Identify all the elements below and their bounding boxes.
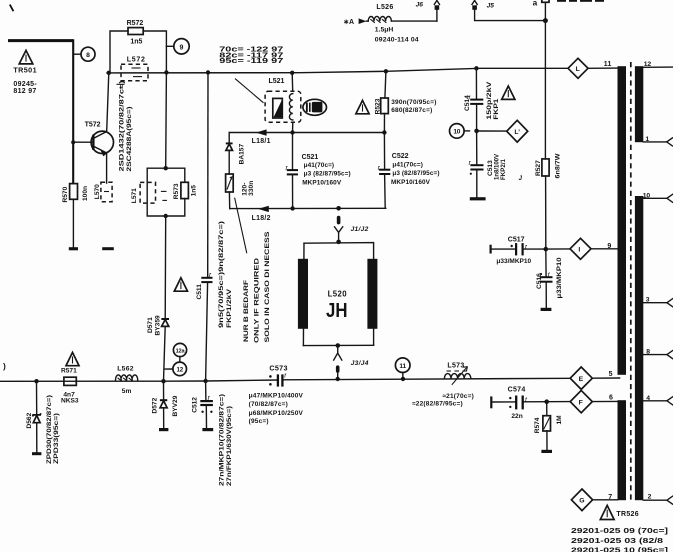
wire bus A down through C511 [207, 73, 209, 278]
svg-text:5: 5 [609, 371, 613, 378]
capacitor C516 [540, 249, 553, 308]
ground bar (R570) [69, 247, 78, 250]
svg-text:100n: 100n [82, 186, 89, 201]
net diamond E [570, 367, 592, 389]
pin 5 wire [592, 377, 619, 379]
node circle 10 [450, 124, 470, 139]
svg-text:C521: C521 [302, 154, 319, 161]
diode BA157 [226, 133, 233, 175]
wire loop to D571 [164, 216, 167, 319]
svg-text:9n5(70/95c=)9n(82/87c=): 9n5(70/95c=)9n(82/87c=) [218, 221, 225, 328]
svg-text:L526: L526 [376, 4, 393, 11]
resistor R523 [385, 71, 386, 98]
capacitor C573 [269, 373, 287, 387]
svg-text:FKP2/1: FKP2/1 [500, 159, 507, 180]
part numbers TR526 [571, 528, 668, 552]
main bus A (horizontal) [107, 68, 568, 73]
svg-text:29201-025 10 (95c=]: 29201-025 10 (95c=] [571, 547, 668, 552]
svg-text:MKP10/160V: MKP10/160V [302, 179, 342, 186]
svg-text:8: 8 [646, 349, 650, 356]
svg-text:2SC4288A(95c=): 2SC4288A(95c=) [126, 107, 133, 172]
inductor L521 (dashed box, core, coil) [265, 91, 301, 122]
transistor T572 [71, 73, 113, 183]
transformer core dashed line [630, 62, 632, 500]
svg-text:E: E [579, 376, 584, 383]
svg-text:C514: C514 [464, 95, 471, 111]
svg-text:8: 8 [86, 52, 90, 59]
connector J1/J2 [335, 206, 343, 242]
svg-text:C522: C522 [392, 153, 409, 160]
pin 2 wire [643, 496, 672, 504]
svg-text:I: I [578, 247, 580, 254]
svg-text:R572: R572 [127, 20, 144, 27]
node circle 9 [166, 39, 189, 54]
svg-text:27n/FKP1/630V(95c=): 27n/FKP1/630V(95c=) [226, 406, 233, 486]
svg-text:3: 3 [646, 297, 650, 304]
svg-text:150p/2kV: 150p/2kV [486, 81, 493, 120]
svg-text:NKS3: NKS3 [61, 398, 79, 405]
capacitor C511 [201, 272, 212, 381]
pointer line to L521 [235, 79, 264, 103]
zener diode D562 [33, 381, 41, 452]
svg-text:12a: 12a [176, 349, 186, 355]
svg-text:ZPD30(70/82/87c=): ZPD30(70/82/87c=) [46, 395, 53, 464]
svg-text:6: 6 [609, 395, 613, 402]
svg-text:10: 10 [643, 192, 651, 199]
resistor R574 (VDR) [543, 402, 551, 450]
svg-text:C511: C511 [196, 284, 203, 300]
svg-text:F: F [579, 399, 583, 406]
resistor 120-330n (adjustable) [226, 174, 234, 209]
resistor R573 [181, 182, 189, 198]
capacitor C514 [468, 68, 483, 131]
transformer TR526 left bar (primary) [618, 66, 627, 375]
svg-text:2SD1432(70/82/87c=): 2SD1432(70/82/87c=) [119, 81, 126, 172]
svg-text:1.5μH: 1.5μH [375, 27, 394, 34]
pin 3 wire [643, 299, 672, 307]
svg-text:L18/2: L18/2 [252, 215, 271, 222]
svg-text:R574: R574 [534, 417, 541, 433]
stray tick top-left [10, 5, 14, 12]
svg-text:ZPD33(95c=): ZPD33(95c=) [53, 413, 60, 464]
svg-text:5m: 5m [122, 388, 132, 395]
svg-text:MKP10/160V: MKP10/160V [391, 179, 431, 186]
capacitor C521 [285, 133, 298, 209]
inductor L573 (adjustable) [444, 367, 470, 385]
junction dots on bus A [107, 71, 111, 75]
svg-text:7: 7 [608, 494, 612, 501]
ground bar (L570/emitter) [102, 247, 114, 250]
svg-text:10: 10 [453, 129, 460, 136]
net diamond L [568, 58, 588, 78]
capacitor C517 on I-bus [490, 243, 546, 255]
svg-text:NUR B BEDARF: NUR B BEDARF [243, 280, 250, 342]
svg-text:μ47/MKP10/400V: μ47/MKP10/400V [249, 392, 304, 399]
svg-text:R571: R571 [61, 368, 77, 375]
svg-text:C573: C573 [269, 363, 287, 372]
svg-text:BA157: BA157 [238, 144, 245, 165]
wire L521 to node [292, 122, 294, 132]
warning triangle (TR526) [600, 505, 614, 519]
svg-text:1: 1 [645, 136, 649, 143]
svg-text:TR526: TR526 [616, 511, 639, 518]
pin 4 wire [643, 397, 672, 405]
diode D572 [160, 381, 167, 428]
ground bar (C516) [541, 308, 552, 311]
svg-text:11: 11 [604, 61, 612, 68]
svg-text:12: 12 [644, 61, 652, 68]
svg-text:29201-025 03 (82/8: 29201-025 03 (82/8 [571, 538, 663, 545]
svg-text:D572: D572 [152, 397, 159, 413]
svg-text:L: L [576, 66, 580, 73]
wire R572 bypass loop [110, 31, 128, 73]
main bus B (horizontal) [0, 380, 277, 381]
svg-text:TR501: TR501 [13, 65, 37, 74]
svg-text:L570: L570 [94, 184, 101, 199]
svg-text:L573: L573 [447, 363, 464, 370]
svg-text:μ41(70c=): μ41(70c=) [304, 162, 335, 169]
svg-text:∗A: ∗A [343, 19, 354, 26]
inductor L562 [116, 375, 138, 381]
transformer right bar (secondary) [635, 66, 643, 142]
resistor R570 [70, 184, 78, 200]
svg-text:C517: C517 [508, 237, 525, 244]
capacitor C512 [200, 381, 213, 428]
svg-text:1n5: 1n5 [130, 39, 142, 46]
svg-text:09245-: 09245- [13, 81, 37, 88]
svg-text:μ33/MKP10: μ33/MKP10 [496, 258, 531, 265]
bottom wire L18/2 [230, 207, 386, 209]
resistor R571 [64, 377, 76, 385]
value text C522 [391, 161, 440, 186]
svg-text:T572: T572 [85, 122, 101, 129]
wire I-bus to diamond I [546, 248, 570, 250]
svg-text:680(82/87c=): 680(82/87c=) [391, 107, 432, 114]
svg-text:L521: L521 [269, 78, 285, 85]
pin 12 wire [643, 66, 673, 68]
svg-text:12: 12 [176, 367, 183, 374]
svg-text:(70/82/87c=): (70/82/87c=) [249, 401, 288, 408]
inductor L520 [298, 240, 378, 348]
svg-text:4: 4 [646, 395, 650, 402]
ground bar (D562) [32, 452, 41, 455]
svg-text:SOLO IN CASO DI NECESS: SOLO IN CASO DI NECESS [264, 231, 271, 343]
ferrite bead symbol [303, 99, 327, 115]
node a (top right) [542, 0, 549, 23]
svg-text:C574: C574 [508, 387, 526, 394]
svg-text:2: 2 [648, 494, 652, 501]
svg-text:μ3 (82/87/95c=): μ3 (82/87/95c=) [392, 170, 439, 177]
resistor R572 [128, 28, 143, 35]
svg-text:812 97: 812 97 [13, 88, 36, 95]
svg-text:29201-025 09 (70c=]: 29201-025 09 (70c=] [571, 528, 668, 535]
inductor L570 (dashed box) [101, 182, 112, 202]
warning triangle (C514) [502, 86, 515, 99]
net diamond L' [479, 120, 528, 142]
wire thick vertical from corner down [72, 39, 74, 183]
ground bar (C513) [470, 197, 486, 200]
svg-text:D571: D571 [147, 317, 154, 333]
svg-text:R523: R523 [375, 98, 382, 114]
net diamond G [571, 489, 592, 511]
pin 10 wire [643, 194, 672, 202]
svg-text:R570: R570 [62, 186, 69, 202]
capacitor C522 [378, 133, 391, 209]
warning triangle (R523) [356, 100, 369, 113]
svg-text:D562: D562 [26, 412, 33, 428]
svg-text:μ3 (82/87/95c=): μ3 (82/87/95c=) [304, 171, 351, 178]
node circle 12 [164, 362, 186, 376]
svg-text:μ33/MKP10: μ33/MKP10 [556, 257, 563, 298]
pin 7 wire [593, 499, 618, 501]
capacitor C513 [468, 131, 483, 197]
note text 70cm/82cm/95cm [219, 46, 283, 65]
svg-text:C512: C512 [192, 397, 199, 413]
svg-text:BY359: BY359 [154, 315, 161, 335]
diode D571 [161, 319, 169, 381]
svg-text:1n5: 1n5 [191, 185, 198, 197]
value C573 [249, 392, 304, 425]
pin 11 wire [588, 67, 618, 69]
svg-text:L571: L571 [131, 188, 138, 203]
svg-text:G: G [579, 498, 584, 505]
wire thick corner top-left [8, 39, 73, 42]
svg-text:L562: L562 [117, 365, 134, 372]
svg-text:C516: C516 [536, 273, 543, 289]
connector J3/J4 [334, 346, 342, 379]
svg-text:JH: JH [326, 300, 348, 322]
svg-text:ONLY IF REQUIRED: ONLY IF REQUIRED [254, 258, 261, 343]
svg-text:a: a [533, 0, 538, 7]
svg-text:BYV29: BYV29 [172, 395, 179, 416]
pin 9 wire [591, 248, 618, 250]
svg-text:μ68/MKP10/250V: μ68/MKP10/250V [249, 410, 304, 417]
ground bar (R574) [541, 450, 552, 453]
svg-text:≈22(82/87/95c=): ≈22(82/87/95c=) [412, 401, 463, 408]
svg-text:9: 9 [180, 44, 184, 51]
connector J5 [472, 0, 545, 20]
svg-text:330n: 330n [248, 181, 255, 196]
inductor L571 (dashed box) [140, 182, 167, 203]
svg-text:1M: 1M [556, 415, 563, 425]
svg-text:): ) [3, 361, 6, 371]
warning triangle (C511) [174, 278, 187, 291]
wire link box: top wire L18/1 [229, 132, 384, 134]
svg-text:J5: J5 [487, 2, 495, 9]
svg-text:≈21(70c=): ≈21(70c=) [442, 393, 474, 400]
svg-text:27n/MKP10(70/82/87c=): 27n/MKP10(70/82/87c=) [218, 394, 225, 486]
svg-text:(95c=): (95c=) [249, 418, 269, 425]
ground bar (C512) [202, 428, 213, 431]
svg-text:L’: L’ [514, 129, 520, 136]
svg-text:R527: R527 [535, 160, 542, 176]
svg-text:L572: L572 [127, 57, 146, 64]
node circle 12a [173, 343, 186, 362]
warning triangle (R571) [66, 352, 79, 365]
svg-text:μ41(70c=): μ41(70c=) [392, 161, 423, 168]
svg-text:9: 9 [607, 243, 611, 250]
svg-text:95c= -119 97: 95c= -119 97 [219, 58, 283, 65]
svg-text:J1/J2: J1/J2 [351, 226, 369, 233]
svg-text:FKP1/2kV: FKP1/2kV [226, 288, 233, 328]
wire to diamond F [547, 401, 570, 403]
capacitor C574 [490, 396, 547, 410]
wire bus A to L521 [291, 73, 294, 92]
svg-text:09240-114 04: 09240-114 04 [375, 36, 419, 43]
junction dots on bus B [34, 379, 38, 383]
wire bus A down to L571 loop [165, 73, 168, 169]
pin 8 wire [643, 351, 672, 359]
ground bar (D572) [159, 428, 168, 431]
net diamond F [570, 390, 592, 412]
svg-text:11: 11 [399, 363, 406, 370]
node circle 11 [395, 358, 410, 379]
svg-text:J6: J6 [416, 1, 424, 8]
node circle 8 [74, 47, 95, 61]
cut-off text top edge [557, 0, 604, 2]
connector J6 [434, 0, 439, 21]
pin 6 wire [592, 400, 617, 402]
svg-text:L18/1: L18/1 [252, 138, 271, 145]
svg-text:6n8/7W: 6n8/7W [554, 152, 561, 178]
resistor R527 [542, 21, 549, 247]
pointer line to NUR text [235, 198, 247, 254]
pin 1 wire [643, 138, 672, 146]
svg-text:L520: L520 [328, 290, 348, 299]
net diamond I [570, 238, 591, 259]
svg-text:390n(70/95c=): 390n(70/95c=) [391, 99, 436, 106]
parallel loop L571 / R573 [147, 166, 185, 218]
svg-text:FKP1: FKP1 [493, 98, 500, 120]
warning triangle TR501 [19, 50, 33, 64]
svg-text:J3/J4: J3/J4 [351, 360, 369, 367]
svg-text:22n: 22n [511, 413, 522, 420]
value text C521 [302, 162, 351, 187]
svg-text:R573: R573 [173, 183, 180, 199]
inductor L572 (dashed box on bus) [117, 64, 149, 88]
inductor L526 [366, 16, 437, 22]
